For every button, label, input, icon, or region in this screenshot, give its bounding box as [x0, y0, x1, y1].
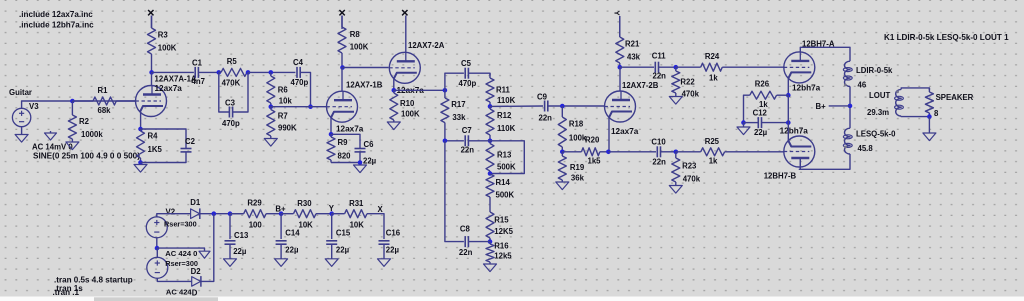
svg-text:R2: R2: [79, 117, 90, 126]
wire C12 to cathode rail: [762, 122, 789, 124]
svg-text:820: 820: [338, 152, 352, 161]
value 22n C11: [653, 72, 667, 81]
svg-text:C13: C13: [234, 231, 249, 240]
value 10K R30: [299, 220, 314, 229]
capacitor C13: [225, 241, 236, 244]
svg-text:Rser=300: Rser=300: [164, 220, 197, 229]
directive .include 12bh7a.inc: [19, 21, 94, 30]
voltage source V3: [12, 108, 30, 126]
value 100k R18: [569, 134, 587, 143]
capacitor C11: [655, 62, 658, 73]
svg-text:C7: C7: [462, 126, 472, 135]
label R3: [158, 31, 169, 40]
svg-text:R19: R19: [570, 163, 585, 172]
wire C3 loop left: [219, 72, 230, 112]
node D2 riser: [212, 211, 217, 216]
value 110K R12: [497, 124, 516, 133]
wire D2 riser: [202, 214, 214, 282]
svg-text:22n: 22n: [461, 146, 475, 155]
node R17/C7 left: [443, 139, 448, 144]
svg-text:12BH7-B: 12BH7-B: [764, 172, 797, 181]
value 470p C5: [459, 79, 477, 88]
node R5 left: [217, 70, 222, 75]
triode U1 12AX7A-1A: [136, 86, 167, 117]
ground under C15: [325, 259, 338, 267]
label C5: [461, 59, 472, 68]
wire V2 bottom: [156, 238, 158, 248]
label R1: [98, 86, 109, 95]
node U3 cathode: [392, 88, 397, 93]
svg-text:C3: C3: [225, 99, 236, 108]
svg-text:C8: C8: [460, 225, 471, 234]
directive .tran .1: [53, 288, 80, 297]
svg-text:12AX7-2B: 12AX7-2B: [622, 81, 659, 90]
svg-text:R13: R13: [497, 151, 512, 160]
node R5 right: [246, 70, 251, 75]
label D stray: [192, 289, 198, 298]
node U2 plate: [340, 65, 345, 70]
wire U5 cathode: [787, 78, 789, 95]
svg-text:C14: C14: [285, 228, 300, 237]
svg-text:12K5: 12K5: [494, 227, 513, 236]
svg-text:R12: R12: [497, 111, 512, 120]
resistor R24: [676, 63, 784, 71]
capacitor C15: [326, 241, 337, 244]
wire left rail down: [445, 141, 464, 242]
node Y rail: [329, 211, 334, 216]
resistor R9: [327, 134, 335, 162]
resistor R10: [390, 90, 398, 122]
diode D1: [191, 208, 200, 219]
svg-text:R20: R20: [585, 136, 600, 145]
svg-text:12ax7a: 12ax7a: [611, 127, 639, 136]
resistor R14: [486, 174, 494, 211]
svg-text:R29: R29: [247, 199, 262, 208]
ground under C13: [224, 259, 237, 267]
label 100K R10: [401, 110, 420, 119]
label R4: [148, 132, 159, 141]
wire V4 top: [156, 248, 158, 257]
svg-text:22µ: 22µ: [386, 245, 400, 254]
wire cathode riser: [787, 95, 789, 140]
svg-text:C12: C12: [753, 109, 768, 118]
label C6: [364, 140, 375, 149]
wire up to C5 rail: [445, 73, 464, 90]
resistor R3: [148, 16, 156, 73]
wire X rail corner: [367, 214, 384, 239]
label R16: [494, 242, 509, 251]
ground supply midpoint: [199, 251, 210, 258]
svg-text:22µ: 22µ: [336, 245, 350, 254]
label C13: [234, 231, 249, 240]
svg-text:1k5: 1k5: [588, 157, 602, 166]
value 500K R13: [497, 163, 516, 172]
voltage source V2: [146, 217, 167, 238]
svg-text:12bh7a: 12bh7a: [780, 127, 809, 136]
ground under R4: [134, 165, 147, 173]
resistor R5: [219, 68, 248, 76]
label 100K R3: [158, 44, 177, 53]
inductor LDIR primary upper: [843, 61, 852, 86]
node C7 junction: [488, 139, 493, 144]
label R29: [247, 199, 262, 208]
label 1000k: [81, 130, 103, 139]
svg-text:.tran .1: .tran .1: [53, 288, 80, 297]
svg-text:12ax7a: 12ax7a: [155, 84, 183, 93]
label R23: [682, 162, 697, 171]
ground under C14: [275, 259, 288, 267]
net flag X above R3: [148, 10, 153, 15]
label R5: [227, 57, 238, 66]
svg-text:4n7: 4n7: [192, 77, 205, 86]
wire plate stem U4: [619, 67, 621, 91]
net flag Y above R21: [613, 10, 622, 15]
svg-text:C11: C11: [652, 52, 667, 61]
value 22µ C15: [336, 245, 350, 254]
svg-text:100K: 100K: [158, 44, 177, 53]
value 1k R24: [709, 74, 718, 83]
value 470p C3: [222, 119, 240, 128]
svg-text:110K: 110K: [497, 124, 516, 133]
svg-text:R6: R6: [278, 86, 289, 95]
wire C3 loop right: [233, 72, 248, 112]
svg-text:R14: R14: [496, 178, 511, 187]
resistor R15: [486, 210, 494, 242]
wire X to U3 plate: [405, 16, 407, 53]
wire U1 cathode to R4: [140, 113, 142, 129]
value 22n C8: [459, 248, 473, 257]
label R20: [585, 136, 600, 145]
svg-text:C5: C5: [461, 59, 472, 68]
svg-text:R25: R25: [705, 137, 720, 146]
svg-text:LOUT: LOUT: [869, 91, 890, 100]
capacitor C3: [229, 107, 232, 118]
capacitor C10: [657, 146, 660, 157]
label SPEAKER: [936, 93, 974, 102]
label R8: [350, 30, 361, 39]
label LDIR-0-5k: [856, 66, 893, 75]
resistor R2: [68, 101, 76, 142]
value 10k: [279, 97, 293, 106]
directive .tran 0.5s 4.8 startup: [54, 276, 133, 285]
resistor R26: [750, 91, 789, 99]
node C13 top: [228, 211, 233, 216]
wire U4 cathode: [608, 117, 610, 151]
svg-text:LDIR-0-5k: LDIR-0-5k: [856, 66, 893, 75]
label V3: [29, 102, 39, 111]
net label Guitar: [9, 88, 32, 97]
svg-text:22µ: 22µ: [363, 157, 377, 166]
node R18/R19/R20: [560, 150, 565, 155]
node C8 junction: [488, 239, 493, 244]
value 43k: [627, 53, 641, 62]
svg-text:R21: R21: [625, 40, 640, 49]
label R10: [400, 99, 415, 108]
label C11: [652, 52, 667, 61]
svg-text:470k: 470k: [682, 90, 700, 99]
svg-text:10k: 10k: [279, 97, 293, 106]
voltage source V4: [147, 257, 168, 278]
resistor SPEAKER: [925, 88, 933, 117]
inductor LOUT secondary: [895, 89, 904, 116]
svg-text:D2: D2: [191, 267, 202, 276]
svg-text:R8: R8: [350, 30, 361, 39]
wire secondary top: [901, 88, 929, 90]
value 1k5: [588, 157, 602, 166]
svg-text:100K: 100K: [401, 110, 420, 119]
svg-text:100K: 100K: [350, 43, 369, 52]
wire C13 ground stub: [229, 244, 231, 258]
value 22n C9: [539, 114, 553, 123]
value 22n C10: [652, 158, 666, 167]
svg-text:1k: 1k: [709, 157, 718, 166]
net flag B+ rail: [275, 205, 286, 214]
label R17: [451, 100, 465, 109]
node R18 top: [560, 104, 565, 109]
ground near AC label: [45, 133, 57, 140]
svg-text:22µ: 22µ: [285, 245, 299, 254]
svg-text:C2: C2: [185, 137, 196, 146]
label R12: [497, 111, 512, 120]
wire primary top lead: [849, 60, 851, 62]
value 36k: [571, 174, 585, 183]
value 1k R26: [759, 100, 768, 109]
ground under R2: [66, 142, 79, 150]
svg-text:Guitar: Guitar: [9, 88, 32, 97]
label 100K R8: [350, 43, 369, 52]
label R13: [497, 151, 512, 160]
svg-text:K1 LDIR-0-5k LESQ-5k-0 LOUT 1: K1 LDIR-0-5k LESQ-5k-0 LOUT 1: [884, 33, 1009, 42]
node C12 left: [741, 120, 746, 125]
wire C12 rail: [744, 122, 759, 124]
wire primary mid: [849, 86, 851, 128]
scrollbar strip: [0, 297, 1024, 301]
value 46: [858, 81, 867, 90]
svg-text:470p: 470p: [459, 79, 477, 88]
value 470k R23: [683, 175, 701, 184]
svg-text:1K5: 1K5: [148, 145, 163, 154]
value 820: [338, 152, 352, 161]
inductor LESQ primary lower: [843, 128, 852, 154]
value 10K R31: [350, 220, 365, 229]
svg-text:22µ: 22µ: [233, 247, 247, 256]
label 12AX7A-1A: [155, 75, 197, 84]
value 22µ C12: [754, 128, 768, 137]
svg-text:.include 12ax7a.inc: .include 12ax7a.inc: [19, 10, 93, 19]
value 12k5: [494, 252, 512, 261]
svg-text:1000k: 1000k: [81, 130, 103, 139]
wire C7 to R13 node: [468, 140, 490, 142]
ground under R9/C6: [354, 165, 367, 173]
wire C5 to R11: [468, 73, 490, 75]
wire grid rail U2: [271, 106, 327, 108]
label LESQ-5k-0: [856, 130, 896, 139]
label C14: [285, 228, 300, 237]
svg-text:R4: R4: [148, 132, 159, 141]
wire R5 to R6/C4: [248, 71, 295, 73]
svg-text:C6: C6: [364, 140, 375, 149]
wire cathode to C5/R17: [394, 89, 445, 91]
ground under C16: [378, 259, 391, 267]
resistor R17: [441, 90, 449, 141]
ground under speaker: [923, 133, 936, 141]
capacitor C9: [545, 101, 548, 112]
svg-text:R18: R18: [569, 120, 584, 129]
resistor R18: [558, 106, 566, 152]
label R14: [496, 178, 511, 187]
svg-text:12AX7-1B: 12AX7-1B: [346, 81, 383, 90]
label C8: [460, 225, 471, 234]
svg-text:AC 424: AC 424: [166, 287, 193, 296]
label SINE(0 25m 100 4.9 0 0 500): [33, 152, 140, 161]
value 12bh7a U5: [792, 84, 821, 93]
svg-text:R16: R16: [494, 242, 509, 251]
capacitor C6: [355, 149, 366, 152]
resistor R22: [672, 67, 680, 96]
wire C7 rail: [445, 140, 464, 142]
label R21: [625, 40, 640, 49]
wire C11 to R24/R22: [659, 66, 676, 68]
value Rser=300 V2: [164, 220, 197, 229]
label 12AX7-2B: [622, 81, 659, 90]
label R2: [79, 117, 90, 126]
node junction R2/input: [70, 99, 75, 104]
svg-text:R3: R3: [158, 31, 169, 40]
resistor R4: [137, 129, 145, 163]
capacitor C8: [465, 236, 468, 247]
node R6/R7 junction: [269, 104, 274, 109]
directive K1 coupling: [884, 33, 1009, 42]
svg-text:22µ: 22µ: [754, 128, 768, 137]
resistor R6: [267, 72, 275, 106]
svg-text:22n: 22n: [539, 114, 553, 123]
capacitor C12: [758, 117, 761, 128]
label C10: [651, 138, 666, 147]
wire U3 cathode: [393, 79, 395, 91]
svg-text:1k: 1k: [709, 74, 718, 83]
wire C1 to R5: [198, 71, 218, 73]
svg-text:68k: 68k: [98, 106, 112, 115]
value 29.3m: [867, 108, 889, 117]
wire plate to C11: [620, 66, 654, 68]
wire C6 bottom: [331, 152, 360, 162]
ground under R23: [669, 186, 682, 194]
wire R13 bypass box: [490, 141, 524, 174]
resistor R20: [562, 148, 608, 156]
node B+ rail: [279, 211, 284, 216]
wire C15 stub: [331, 214, 333, 239]
svg-text:C10: C10: [651, 138, 666, 147]
net flag X above U3: [402, 10, 407, 15]
wire speaker ground stub: [928, 117, 930, 133]
label R6: [278, 86, 289, 95]
capacitor C7: [465, 135, 468, 146]
value AC 424: [166, 287, 193, 296]
node C4/grid junction: [308, 104, 313, 109]
svg-text:R22: R22: [680, 78, 695, 87]
wire U1 plate to C1: [152, 71, 194, 73]
label R30: [297, 199, 312, 208]
svg-text:12ax7a: 12ax7a: [336, 125, 364, 134]
capacitor C14: [276, 241, 287, 244]
svg-text:470p: 470p: [291, 78, 309, 87]
wire C14 stub: [280, 214, 282, 239]
svg-text:500K: 500K: [496, 191, 515, 200]
ground under R7: [264, 139, 277, 147]
ground under R19: [556, 182, 569, 190]
svg-text:C9: C9: [537, 93, 548, 102]
value 22µ C16: [386, 245, 400, 254]
label AC 14mV 0: [32, 143, 73, 152]
label R24: [705, 52, 720, 61]
wire V3 top to input rail: [22, 101, 136, 108]
svg-text:R1: R1: [98, 86, 109, 95]
value 990K: [278, 124, 297, 133]
value 12bh7a U6: [780, 127, 809, 136]
value 12ax7a U4: [611, 127, 639, 136]
value 45.8: [858, 144, 874, 153]
node U4 plate: [618, 65, 623, 70]
svg-text:43k: 43k: [627, 53, 641, 62]
svg-text:AC 424 0: AC 424 0: [165, 249, 197, 258]
label 1K5: [148, 145, 163, 154]
capacitor C2: [181, 149, 192, 152]
label D2: [191, 267, 202, 276]
value 22n C7: [461, 146, 475, 155]
value 22µ C6: [363, 157, 377, 166]
svg-text:8: 8: [934, 109, 939, 118]
svg-text:470p: 470p: [222, 119, 240, 128]
node R6 top: [269, 70, 274, 75]
svg-text:10K: 10K: [299, 220, 314, 229]
resistor R29: [230, 210, 281, 218]
node supply midpoint: [155, 246, 160, 251]
value 1k R25: [709, 157, 718, 166]
label C4: [293, 58, 304, 67]
diode D2: [192, 276, 201, 287]
resistor R31: [332, 210, 367, 218]
node R22 top: [674, 65, 679, 70]
svg-text:V2: V2: [166, 208, 176, 217]
triode U3 12AX7-2A: [389, 52, 420, 83]
node C5/R17 junction: [443, 88, 448, 93]
node R23 top: [674, 150, 679, 155]
label C2: [185, 137, 196, 146]
wire U2 cathode: [330, 118, 332, 135]
svg-text:990K: 990K: [278, 124, 297, 133]
ground under R26/C12: [737, 127, 750, 135]
svg-text:22n: 22n: [653, 72, 667, 81]
svg-text:R23: R23: [682, 162, 697, 171]
wire C6 top: [331, 134, 360, 148]
wire C15 ground stub: [331, 244, 333, 258]
value 100: [249, 220, 263, 229]
label D1: [190, 198, 201, 207]
label C12: [753, 109, 768, 118]
label V2: [166, 208, 176, 217]
svg-text:B+: B+: [816, 102, 827, 111]
wire U2 plate to U3 grid: [343, 67, 389, 69]
net flag Y rail: [329, 204, 335, 213]
value 470p C4: [291, 78, 309, 87]
wire plate stem U1: [151, 72, 153, 85]
wire V4 bottom: [157, 278, 191, 281]
svg-text:SPEAKER: SPEAKER: [936, 93, 974, 102]
resistor R21: [616, 16, 624, 67]
label C9: [537, 93, 548, 102]
directive .include 12ax7a.inc: [19, 10, 93, 19]
svg-text:X: X: [378, 205, 384, 214]
